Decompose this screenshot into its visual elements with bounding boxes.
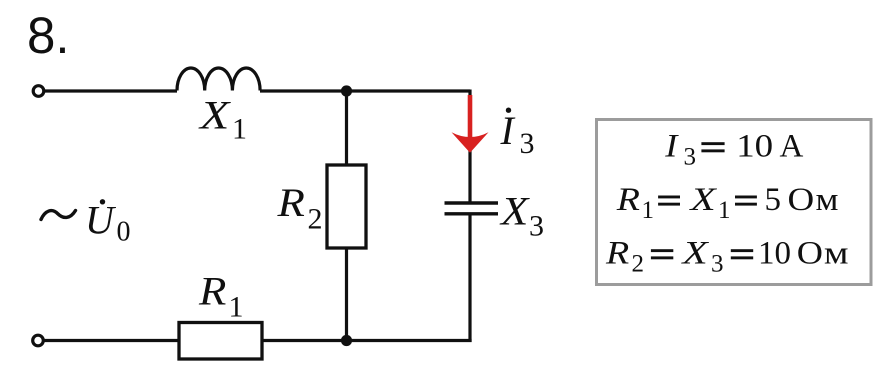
wire bottom-right segment (262, 339, 472, 342)
svg-text:U: U (85, 198, 117, 243)
svg-text:1: 1 (642, 197, 655, 224)
svg-text:О: О (797, 234, 823, 271)
svg-text:3: 3 (529, 210, 544, 243)
wire right branch vertical (468, 90, 471, 343)
svg-text:A: A (780, 129, 804, 165)
parameters line 2: R1 = X1 = 5 Om (616, 180, 839, 224)
svg-text:1: 1 (229, 291, 244, 324)
svg-text:3: 3 (711, 251, 724, 278)
current arrow I3 (red) (452, 95, 489, 153)
label X3 (499, 189, 544, 242)
capacitor X3 (445, 203, 499, 214)
svg-text:1: 1 (718, 197, 731, 224)
svg-text:м: м (816, 180, 839, 217)
wire middle branch lower (345, 248, 348, 341)
svg-text:2: 2 (308, 202, 323, 235)
node junction top (341, 85, 352, 96)
svg-text:О: О (788, 181, 815, 218)
label I3 (dotted I) (500, 108, 535, 161)
wire top-left segment (45, 89, 178, 92)
svg-text:I: I (664, 127, 679, 164)
terminal (top-left input) (33, 86, 44, 97)
svg-text:1: 1 (232, 113, 247, 146)
parameters line 3: R2 = X3 = 10 Om (605, 234, 849, 278)
svg-text:R: R (198, 270, 226, 314)
svg-text:8.: 8. (27, 7, 70, 64)
wire middle branch upper (345, 91, 348, 166)
svg-text:X: X (499, 189, 531, 233)
svg-text:X: X (688, 182, 718, 218)
svg-text:R: R (605, 234, 630, 271)
svg-text:5: 5 (765, 182, 782, 218)
wire top-right segment (260, 89, 470, 92)
svg-text:R: R (616, 180, 641, 217)
svg-text:X: X (680, 235, 710, 271)
label R2 (276, 181, 322, 235)
resistor R2 (327, 165, 366, 248)
parameters line 1: I3 = 10 A (664, 127, 803, 170)
svg-text:0: 0 (117, 217, 131, 248)
inductor X1 (177, 68, 260, 91)
svg-text:10: 10 (736, 127, 773, 164)
label X1 (198, 93, 247, 145)
svg-text:R: R (276, 181, 304, 225)
node junction bottom (341, 335, 352, 346)
parameters box frame (597, 120, 872, 285)
wire bottom-left segment (44, 339, 179, 342)
svg-text:I: I (500, 108, 516, 153)
svg-text:3: 3 (684, 144, 697, 171)
svg-text:X: X (198, 93, 232, 137)
resistor R1 (179, 323, 262, 360)
terminal (bottom-left input) (33, 335, 44, 346)
svg-text:3: 3 (520, 127, 535, 160)
svg-text:м: м (824, 234, 849, 271)
svg-text:2: 2 (632, 251, 645, 278)
source label ~ U0 (41, 198, 131, 248)
label R1 (198, 270, 244, 324)
svg-text:10: 10 (758, 236, 791, 272)
